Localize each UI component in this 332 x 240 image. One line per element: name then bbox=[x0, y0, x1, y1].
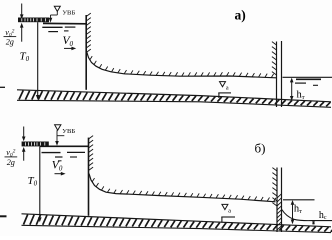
label T0 (diagram a) bbox=[20, 51, 30, 64]
upstream water surface (diagram b) bbox=[40, 145, 89, 147]
downstream water level (diagram a) bbox=[283, 76, 332, 78]
upstream wall (diagram a) bbox=[85, 15, 87, 90]
caption a) bbox=[235, 8, 246, 23]
svg-text:hт: hт bbox=[297, 90, 305, 101]
label h_t (diagram a) bbox=[297, 90, 305, 101]
svg-text:V0: V0 bbox=[63, 35, 74, 48]
striped energy-head band (diagram b) bbox=[22, 142, 49, 147]
svg-text:а: а bbox=[228, 207, 231, 214]
label v0^2/2g (diagram a) bbox=[4, 28, 17, 47]
drawdown surface curve (diagram b) bbox=[89, 174, 276, 202]
velocity arrow (diagram b) bbox=[55, 172, 66, 176]
label T0 (diagram b) bbox=[28, 175, 38, 188]
depth arrow h_c (diagram b) bbox=[312, 221, 315, 225]
svg-text:2g: 2g bbox=[7, 158, 15, 167]
depth arrow h_t (diagram a) bbox=[290, 78, 294, 101]
left margin dash (diagram b) bbox=[0, 215, 7, 217]
label h_t (diagram b) bbox=[294, 204, 302, 215]
curve hatching (diagram b) bbox=[92, 178, 276, 202]
svg-text:hт: hт bbox=[294, 204, 302, 215]
downstream wall (diagram a) bbox=[277, 41, 282, 107]
svg-text:V0: V0 bbox=[52, 160, 63, 173]
measure arrow above energy band (diagram b) bbox=[22, 127, 26, 142]
left margin dash (diagram a) bbox=[0, 86, 5, 88]
downstream water level 1 (diagram b) bbox=[283, 199, 315, 201]
depth arrow h_t (diagram b) bbox=[291, 200, 295, 224]
striped energy-head band (diagram a) bbox=[18, 18, 49, 23]
label v0^2/2g (diagram b) bbox=[5, 148, 18, 167]
downstream water dashes (diagram a) bbox=[295, 79, 321, 85]
svg-text:б): б) bbox=[255, 141, 266, 156]
downstream wall hatching (diagram a) bbox=[272, 42, 277, 75]
level mark nabla_a (diagram a) bbox=[218, 82, 231, 98]
wall hatching (diagram b) bbox=[89, 136, 94, 171]
svg-text:2g: 2g bbox=[6, 38, 14, 47]
label V0 (diagram a) bbox=[63, 35, 74, 48]
level mark nabla_a (diagram b) bbox=[221, 204, 235, 222]
measure arrow below energy band (diagram a) bbox=[20, 23, 24, 42]
svg-text:а): а) bbox=[235, 8, 246, 23]
jet surface curve (diagram b) bbox=[282, 210, 311, 221]
downstream wall core hatching (diagram b) bbox=[277, 194, 282, 230]
measure arrow above energy band (diagram a) bbox=[20, 4, 24, 20]
head measuring line T0 (diagram a) bbox=[36, 22, 40, 100]
head measuring line T0 (diagram b) bbox=[38, 147, 42, 223]
wall hatching (diagram a) bbox=[86, 13, 91, 52]
caption b) bbox=[255, 141, 266, 156]
upstream wall (diagram b) bbox=[88, 138, 90, 216]
curve hatching (diagram a) bbox=[90, 56, 274, 78]
downstream wall hatching (diagram b) bbox=[272, 168, 277, 206]
water-level mark nabla UVB (diagram a) bbox=[49, 6, 76, 22]
svg-text:а: а bbox=[226, 85, 229, 92]
water-level mark nabla UVB (diagram b) bbox=[55, 125, 76, 146]
svg-text:УВБ: УВБ bbox=[62, 128, 75, 135]
water symbol dashes (diagram a) bbox=[42, 27, 75, 32]
svg-text:T0: T0 bbox=[20, 51, 30, 64]
drawdown surface curve (diagram a) bbox=[87, 52, 276, 78]
downstream wall (diagram b) bbox=[277, 168, 282, 233]
svg-text:hс: hс bbox=[319, 210, 327, 221]
svg-text:УВБ: УВБ bbox=[62, 9, 75, 16]
label h_c (diagram b) bbox=[319, 210, 327, 221]
measure arrow below energy band (diagram b) bbox=[22, 147, 26, 161]
upstream water surface (diagram a) bbox=[43, 22, 87, 24]
downstream water level 2 (diagram b) bbox=[311, 220, 332, 222]
channel bottom hatched band (diagram b) bbox=[22, 214, 332, 233]
velocity arrow (diagram a) bbox=[64, 47, 76, 51]
label V0 (diagram b) bbox=[52, 160, 63, 173]
channel bottom hatched band (diagram a) bbox=[17, 90, 332, 108]
water symbol dashes (diagram b) bbox=[42, 152, 86, 160]
svg-text:T0: T0 bbox=[28, 175, 38, 188]
